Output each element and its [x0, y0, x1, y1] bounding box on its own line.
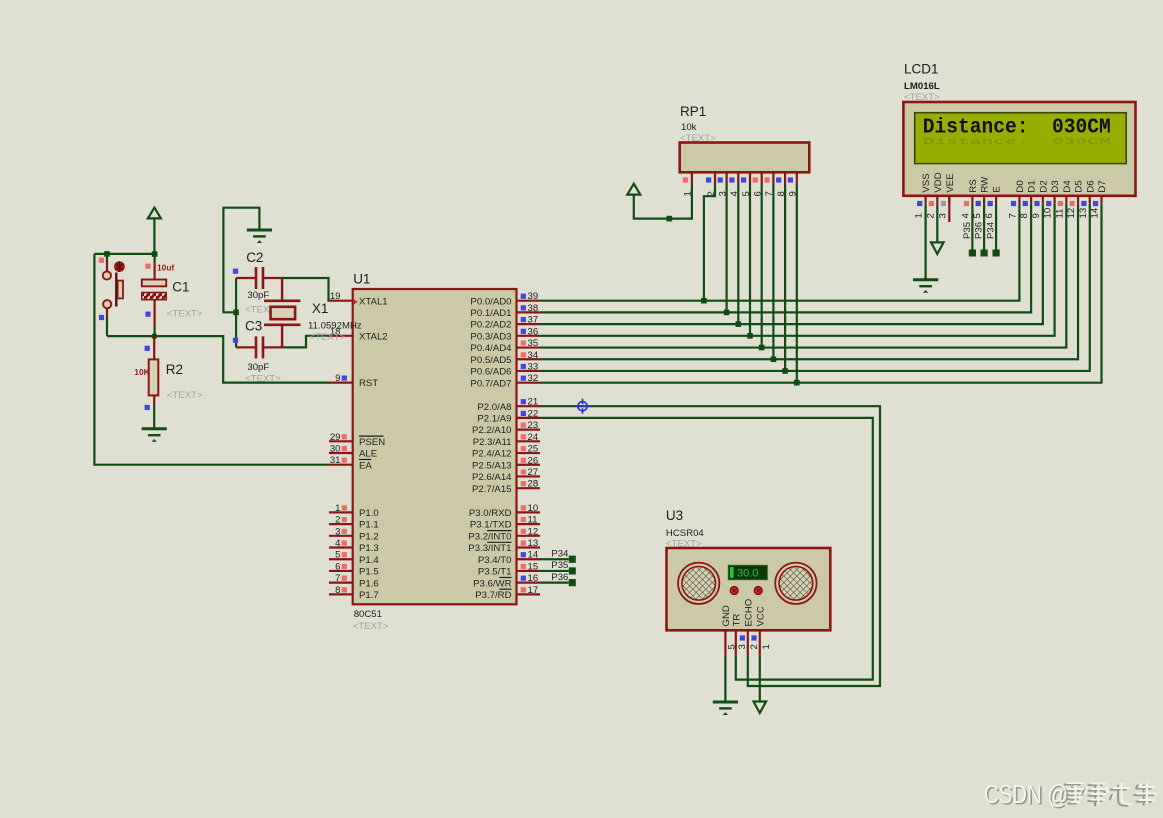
svg-text:EA: EA [359, 460, 372, 471]
svg-text:R2: R2 [166, 362, 183, 377]
svg-text:RP1: RP1 [680, 104, 706, 119]
svg-text:XTAL1: XTAL1 [359, 296, 388, 307]
wire vcc rail top [94, 253, 154, 255]
node junction RP1-pin4 / P0.2 [736, 321, 742, 327]
svg-text:P3.5/T1: P3.5/T1 [478, 567, 512, 578]
node terminal P36 at LCD [974, 203, 988, 256]
svg-text:30.0: 30.0 [737, 568, 758, 580]
svg-text:6: 6 [335, 561, 340, 572]
node state square C1-bottom [145, 312, 150, 317]
U1 pin 1 P1.0 [329, 503, 379, 519]
svg-text:P35: P35 [962, 222, 973, 239]
svg-text:P2.6/A14: P2.6/A14 [472, 472, 512, 483]
wire left rail to EA [94, 254, 329, 465]
svg-text:6: 6 [984, 213, 995, 218]
svg-text:38: 38 [528, 303, 539, 314]
svg-text:X1: X1 [312, 301, 329, 316]
node terminal P36 at U1 [540, 572, 576, 586]
svg-text:D1: D1 [1027, 180, 1038, 192]
svg-text:30: 30 [330, 444, 341, 455]
svg-text:10k: 10k [681, 122, 697, 133]
svg-text:P2.5/A13: P2.5/A13 [472, 460, 511, 471]
svg-text:P0.2/AD2: P0.2/AD2 [470, 320, 511, 331]
U1 pin 38 P0.1/AD1 [470, 303, 540, 319]
svg-text:1: 1 [335, 503, 340, 514]
svg-text:P0.0/AD0: P0.0/AD0 [470, 296, 511, 307]
svg-text:P0.6/AD6: P0.6/AD6 [470, 367, 511, 378]
svg-text:P1.3: P1.3 [359, 543, 379, 554]
node terminal P35 at U1 [540, 560, 576, 574]
wire XTAL2 [282, 336, 329, 348]
svg-text:P1.4: P1.4 [359, 555, 379, 566]
node junction RP1-pin7 / P0.5 [771, 356, 777, 362]
resistor R2 10K [149, 336, 159, 429]
wire RP1 pin6 drop [761, 184, 763, 348]
svg-text:3: 3 [335, 526, 340, 537]
svg-text:29: 29 [330, 432, 341, 443]
svg-text:<TEXT>: <TEXT> [167, 390, 203, 401]
svg-text:C2: C2 [246, 250, 263, 265]
U3 distance readout 30.0 [728, 565, 767, 579]
svg-text:10uf: 10uf [157, 263, 174, 273]
svg-text:80C51: 80C51 [354, 609, 382, 620]
svg-text:P2.3/A11: P2.3/A11 [473, 437, 512, 448]
U1 pin 6 P1.5 [329, 561, 379, 577]
ground near C2 [247, 230, 272, 243]
svg-text:U1: U1 [353, 272, 370, 287]
node junction RP1-pin9 / P0.7 [794, 380, 800, 386]
svg-text:39: 39 [528, 291, 539, 302]
svg-text:27: 27 [528, 467, 539, 478]
capacitor C3 30pF [236, 336, 282, 358]
svg-text:VCC: VCC [755, 606, 766, 626]
svg-text:D0: D0 [1015, 180, 1026, 192]
svg-text:P34: P34 [986, 221, 997, 239]
node junction C1-top [152, 251, 158, 257]
wire crystal ground branch [223, 208, 259, 313]
resistor pack RP1 body [680, 143, 810, 173]
capacitor C2 30pF [236, 267, 282, 289]
svg-text:P1.7: P1.7 [359, 590, 379, 601]
RP1 pin 4 [729, 172, 740, 196]
wire P0.1 bus to LCD D1 [540, 203, 1031, 312]
U1 pin 17 P3.7/RD [475, 585, 540, 601]
svg-text:32: 32 [528, 373, 539, 384]
U1 pin 35 P0.4/AD4 [470, 338, 540, 354]
capacitor C1 10uf electrolytic [142, 254, 166, 336]
svg-text:D5: D5 [1074, 180, 1085, 192]
svg-text:26: 26 [528, 455, 539, 466]
svg-text:<TEXT>: <TEXT> [245, 374, 281, 385]
node state square R2-bottom [145, 405, 150, 410]
wire LCD VEE stub [948, 196, 950, 222]
wire RP1 pin5 drop [749, 184, 751, 336]
op-amp U1 80C51 microcontroller body [353, 289, 517, 604]
svg-text:P3.0/RXD: P3.0/RXD [469, 508, 512, 519]
U1 XTAL1 arrow marker [354, 299, 358, 304]
U1 pin 11 P3.1/TXD [470, 515, 540, 531]
svg-text:13: 13 [528, 538, 539, 549]
node state square C1-top [145, 264, 150, 269]
U1 pin 21 P2.0/A8 [477, 397, 540, 413]
svg-text:P2.7/A15: P2.7/A15 [472, 484, 511, 495]
node state square U3 ECHO [751, 635, 756, 640]
svg-text:LM016L: LM016L [904, 81, 940, 92]
svg-text:D3: D3 [1050, 180, 1061, 192]
svg-text:16: 16 [528, 573, 539, 584]
svg-text:17: 17 [528, 585, 539, 596]
RP1 pin 8 [776, 172, 787, 196]
svg-text:P0.1/AD1: P0.1/AD1 [470, 308, 511, 319]
power vdd arrow down at LCD [931, 203, 944, 254]
LCD1 pin 10 D3 [1043, 180, 1062, 218]
svg-text:P2.4/A12: P2.4/A12 [472, 449, 511, 460]
U1 pin 16 P3.6/WR [473, 573, 540, 589]
svg-text:14: 14 [528, 550, 539, 561]
svg-text:C3: C3 [245, 319, 262, 334]
svg-text:XTAL2: XTAL2 [359, 331, 388, 342]
U1 pin 9 RST [329, 373, 378, 389]
LCD1 pin 3 VEE [937, 173, 956, 218]
LCD screen [915, 113, 1126, 164]
RP1 pin 7 [764, 172, 775, 196]
U3 right transducer [775, 563, 816, 604]
LCD1 pin 5 RW [972, 176, 991, 219]
wire P0.7 bus to LCD D7 [540, 203, 1102, 382]
power vcc arrow top-left [148, 208, 161, 254]
svg-text:P2.1/A9: P2.1/A9 [477, 414, 511, 425]
svg-text:P3.3/INT1: P3.3/INT1 [468, 543, 511, 554]
svg-text:8: 8 [335, 585, 340, 596]
svg-text:P3.7/RD: P3.7/RD [475, 590, 511, 601]
U1 pin 14 P3.4/T0 [478, 550, 540, 566]
svg-text:1: 1 [914, 213, 925, 218]
node state square R2-top [145, 346, 150, 351]
power vcc arrow down at U3 [754, 655, 767, 713]
node state square button B [99, 315, 104, 320]
svg-text:VDD: VDD [933, 172, 944, 192]
node junction RP1-pin5 / P0.3 [747, 333, 753, 339]
svg-text:28: 28 [528, 479, 539, 490]
svg-text:15: 15 [528, 561, 539, 572]
wire RP1 pin4 drop [737, 184, 739, 324]
svg-text:19: 19 [330, 291, 341, 302]
node junction C1/R2 [151, 333, 157, 339]
svg-text:RW: RW [980, 176, 991, 193]
svg-text:P34: P34 [551, 548, 569, 559]
LCD1 pin 11 D4 [1054, 180, 1073, 219]
wire XTAL1 [282, 278, 329, 301]
svg-text:CSDN @: CSDN @ [984, 779, 1068, 809]
wire U3 GND [724, 655, 726, 702]
svg-text:9: 9 [335, 373, 340, 384]
svg-text:RST: RST [359, 378, 378, 389]
wire P0.0 bus to LCD D0 [540, 203, 1019, 301]
svg-text:8: 8 [1019, 213, 1030, 218]
svg-text:7: 7 [1008, 213, 1019, 218]
wire P0.3 bus to LCD D3 [540, 203, 1055, 336]
svg-text:P36: P36 [551, 572, 568, 583]
node junction RP1-pin8 / P0.6 [782, 368, 788, 374]
svg-text:D4: D4 [1062, 180, 1073, 193]
LCD1 pin 9 D2 [1031, 180, 1050, 218]
wire P0.2 bus to LCD D2 [540, 203, 1043, 324]
RP1 pin 6 [753, 172, 764, 196]
wire P0.6 bus to LCD D6 [540, 203, 1090, 371]
U1 pin 39 P0.0/AD0 [470, 291, 540, 307]
svg-text:P3.4/T0: P3.4/T0 [478, 555, 512, 566]
svg-text:TR: TR [731, 614, 742, 627]
svg-text:2: 2 [335, 515, 340, 526]
wire RP1 pin9 drop [796, 184, 798, 383]
LCD1 pin 14 D7 [1090, 180, 1109, 218]
U1 pin 5 P1.4 [329, 550, 379, 566]
U1 pin 37 P0.2/AD2 [470, 315, 540, 331]
U1 pin 33 P0.6/AD6 [470, 361, 540, 377]
button (reset push button) [103, 256, 125, 336]
svg-text:P0.4/AD4: P0.4/AD4 [470, 343, 512, 354]
RP1 pin 9 [788, 172, 799, 196]
svg-text:23: 23 [528, 420, 539, 431]
ground under R2 [142, 429, 167, 442]
svg-text:12: 12 [528, 526, 539, 537]
wire RP1 pin7 drop [772, 184, 774, 359]
U1 pin 27 P2.6/A14 [472, 467, 540, 483]
svg-text:1: 1 [761, 644, 772, 649]
svg-text:U3: U3 [666, 508, 683, 523]
svg-text:11.0592MHz: 11.0592MHz [308, 320, 362, 331]
U1 pin 29 PSEN [329, 432, 385, 448]
svg-text:<TEXT>: <TEXT> [904, 92, 940, 103]
svg-text:P1.1: P1.1 [359, 520, 379, 531]
ground under U3 [713, 702, 738, 715]
U3 pin 2 ECHO [743, 599, 760, 656]
U1 pin 36 P0.3/AD3 [470, 326, 540, 342]
svg-text:D7: D7 [1097, 180, 1108, 192]
LCD1 pin 4 RS [961, 179, 980, 218]
svg-text:<TEXT>: <TEXT> [353, 621, 389, 632]
U1 pin 2 P1.1 [329, 515, 379, 531]
LCD1 pin 2 VDD [925, 172, 944, 218]
wire RST net horizontal [107, 336, 330, 383]
node terminal P34 at U1 [540, 548, 576, 562]
svg-text:12: 12 [1066, 208, 1077, 219]
svg-text:C1: C1 [172, 280, 189, 295]
U1 pin 13 P3.3/INT1 [468, 538, 540, 554]
svg-text:37: 37 [528, 315, 539, 326]
svg-text:PSEN: PSEN [359, 437, 385, 448]
node state square C2 [233, 269, 238, 274]
node terminal P35 at LCD [962, 203, 976, 256]
svg-text:P36: P36 [974, 222, 985, 239]
U1 pin 15 P3.5/T1 [478, 561, 540, 577]
wire RP1 pin3 drop [725, 184, 727, 312]
U1 pin 23 P2.2/A10 [472, 420, 540, 436]
svg-text:ECHO: ECHO [743, 599, 754, 627]
svg-text:35: 35 [528, 338, 539, 349]
svg-text:11: 11 [528, 515, 538, 526]
node junction button-top [104, 251, 110, 257]
LCD1 pin 12 D5 [1066, 180, 1085, 218]
U1 pin 25 P2.4/A12 [472, 444, 540, 460]
node junction RP1 vcc wire [667, 216, 673, 222]
svg-text:33: 33 [528, 361, 539, 372]
svg-text:VSS: VSS [921, 173, 932, 192]
U1 pin 10 P3.0/RXD [469, 503, 540, 519]
LCD1 pin 6 E [984, 186, 1003, 218]
LCD1 pin 1 VSS [914, 173, 933, 218]
U1 pin 26 P2.5/A13 [472, 455, 540, 471]
U1 pin 7 P1.6 [329, 573, 379, 589]
svg-text:LCD1: LCD1 [904, 62, 939, 77]
U1 pin 28 P2.7/A15 [472, 479, 540, 495]
svg-text:P2.0/A8: P2.0/A8 [477, 402, 511, 413]
svg-text:7: 7 [335, 573, 340, 584]
svg-text:<TEXT>: <TEXT> [167, 309, 203, 320]
node terminal P34 at LCD [986, 203, 1000, 256]
U3 pin 1 VCC [755, 606, 772, 655]
svg-text:24: 24 [528, 432, 539, 443]
power vcc arrow RP1 [627, 184, 692, 219]
svg-text:P3.2/INT0: P3.2/INT0 [468, 531, 511, 542]
wire LCD VSS to ground [924, 203, 926, 280]
U1 pin 32 P0.7/AD7 [470, 373, 540, 389]
LCD1 pin 8 D1 [1019, 180, 1038, 218]
U3 pin 5 GND [721, 605, 738, 655]
svg-text:4: 4 [961, 213, 972, 219]
LCD1 pin 7 D0 [1008, 180, 1027, 218]
svg-text:9: 9 [1031, 213, 1042, 218]
svg-text:P0.7/AD7: P0.7/AD7 [470, 378, 511, 389]
svg-text:P35: P35 [551, 560, 568, 571]
wire P0.5 bus to LCD D5 [540, 203, 1078, 359]
wire P0.4 bus to LCD D4 [540, 203, 1066, 347]
node junction RP1-pin3 / P0.1 [724, 310, 730, 316]
ground under LCD [913, 280, 938, 293]
svg-text:3: 3 [937, 213, 948, 218]
svg-text:P3.1/TXD: P3.1/TXD [470, 520, 512, 531]
svg-text:4: 4 [335, 538, 341, 549]
svg-text:<TEXT>: <TEXT> [310, 332, 346, 343]
node state square U3 TR [740, 635, 745, 640]
node junction RP1-pin6 / P0.4 [759, 345, 765, 351]
svg-text:25: 25 [528, 444, 539, 455]
svg-text:P1.2: P1.2 [359, 531, 379, 542]
svg-text:RS: RS [968, 179, 979, 192]
svg-text:10: 10 [1043, 208, 1054, 219]
svg-text:D6: D6 [1085, 180, 1096, 192]
node junction RP1-pin2 / P0.0 [701, 298, 707, 304]
watermark CSDN [984, 779, 1158, 811]
svg-text:21: 21 [528, 397, 539, 408]
U1 pin 4 P1.3 [329, 538, 379, 554]
svg-text:2: 2 [749, 644, 760, 649]
svg-text:P0.3/AD3: P0.3/AD3 [470, 331, 511, 342]
U1 pin 8 P1.7 [329, 585, 379, 601]
svg-text:ALE: ALE [359, 449, 377, 460]
svg-text:10: 10 [528, 503, 539, 514]
wire C2-C3 left vertical [235, 278, 237, 347]
RP1 pin 1 [683, 172, 694, 196]
wire RP1 pin2 jog [704, 184, 715, 301]
svg-text:HCSR04: HCSR04 [666, 528, 705, 539]
crystal X1 11.0592MHz [264, 278, 300, 347]
svg-text:P1.5: P1.5 [359, 567, 379, 578]
U3 pin 3 TR [731, 614, 748, 656]
U1 pin 12 P3.2/INT0 [468, 526, 540, 542]
U1 pin 3 P1.2 [329, 526, 379, 542]
U1 pin 24 P2.3/A11 [473, 432, 540, 448]
U1 pin 34 P0.5/AD5 [470, 350, 540, 366]
svg-text:P1.0: P1.0 [359, 508, 379, 519]
U1 pin 22 P2.1/A9 [477, 408, 540, 424]
node state square button A [99, 258, 104, 263]
wire P2.1 to TR [540, 418, 873, 680]
svg-text:36: 36 [528, 326, 539, 337]
svg-text:<TEXT>: <TEXT> [680, 133, 716, 144]
U3 indicator led TR [730, 587, 738, 595]
svg-text:5: 5 [972, 213, 983, 218]
U1 pin 18 XTAL2 [329, 326, 388, 342]
svg-text:30pF: 30pF [247, 362, 269, 373]
svg-text:22: 22 [528, 408, 539, 419]
LCD1 LM016L display body [903, 102, 1135, 196]
svg-text:5: 5 [335, 550, 340, 561]
svg-text:P3.6/WR: P3.6/WR [473, 578, 511, 589]
U3 left transducer [678, 563, 719, 604]
svg-text:11: 11 [1054, 209, 1065, 219]
svg-text:2: 2 [925, 213, 936, 218]
svg-text:D2: D2 [1038, 180, 1049, 192]
svg-text:30pF: 30pF [247, 290, 269, 301]
svg-text:3: 3 [737, 644, 748, 649]
svg-text:13: 13 [1078, 208, 1089, 219]
wire P2.0 to ECHO [540, 406, 880, 686]
RP1 pin 5 [741, 172, 752, 196]
svg-text:Distance: 030CM: Distance: 030CM [923, 136, 1111, 147]
U1 pin 30 ALE [329, 444, 377, 460]
svg-text:P2.2/A10: P2.2/A10 [472, 425, 511, 436]
RP1 pin 3 [717, 172, 728, 196]
U1 pin 19 XTAL1 [329, 291, 388, 307]
U3 indicator led ECHO [754, 587, 762, 595]
svg-text:P0.5/AD5: P0.5/AD5 [470, 355, 511, 366]
svg-text:P1.6: P1.6 [359, 578, 379, 589]
svg-text:VEE: VEE [945, 173, 956, 192]
svg-text:14: 14 [1090, 207, 1101, 218]
svg-text:E: E [992, 186, 1003, 192]
svg-text:<TEXT>: <TEXT> [666, 539, 702, 550]
node origin marker on P2.0 wire [575, 399, 590, 414]
wire RP1 pin8 drop [784, 184, 786, 371]
node state square C3 [233, 338, 238, 343]
node junction crystal-gnd [233, 310, 239, 316]
svg-text:31: 31 [330, 455, 341, 466]
sensor U3 HCSR04 body [667, 548, 831, 630]
RP1 pin 2 [706, 172, 717, 196]
svg-text:10K: 10K [134, 367, 149, 377]
svg-text:34: 34 [528, 350, 539, 361]
U1 pin 31 EA [329, 455, 372, 471]
svg-text:GND: GND [721, 605, 732, 626]
LCD1 pin 13 D6 [1078, 180, 1097, 218]
